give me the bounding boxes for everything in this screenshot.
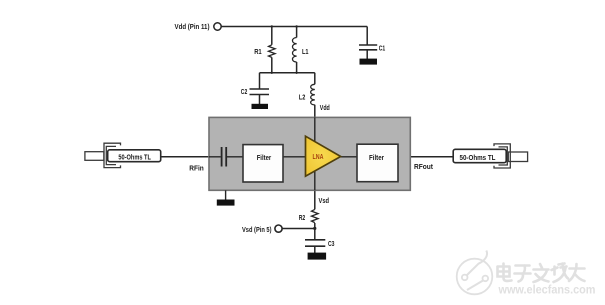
svg-text:C2: C2 [241, 87, 248, 96]
svg-text:Vdd (Pin 11): Vdd (Pin 11) [175, 22, 211, 31]
svg-text:L1: L1 [302, 47, 309, 56]
svg-text:www.elecfans.com: www.elecfans.com [498, 285, 596, 297]
svg-text:Filter: Filter [257, 153, 272, 162]
svg-text:R2: R2 [299, 213, 306, 222]
svg-text:C3: C3 [328, 239, 335, 248]
svg-text:RFout: RFout [414, 162, 434, 171]
svg-text:Filter: Filter [369, 153, 384, 162]
svg-text:LNA: LNA [313, 152, 324, 161]
svg-text:L2: L2 [299, 93, 306, 102]
svg-text:Vsd: Vsd [319, 196, 330, 205]
svg-text:50-Ohms TL: 50-Ohms TL [118, 153, 151, 162]
svg-text:Vsd (Pin 5): Vsd (Pin 5) [242, 225, 272, 234]
svg-text:Vdd: Vdd [320, 103, 330, 112]
svg-text:50-Ohms TL: 50-Ohms TL [460, 153, 497, 162]
svg-text:R1: R1 [254, 47, 262, 56]
svg-text:C1: C1 [379, 44, 386, 53]
svg-text:RFin: RFin [189, 164, 204, 173]
